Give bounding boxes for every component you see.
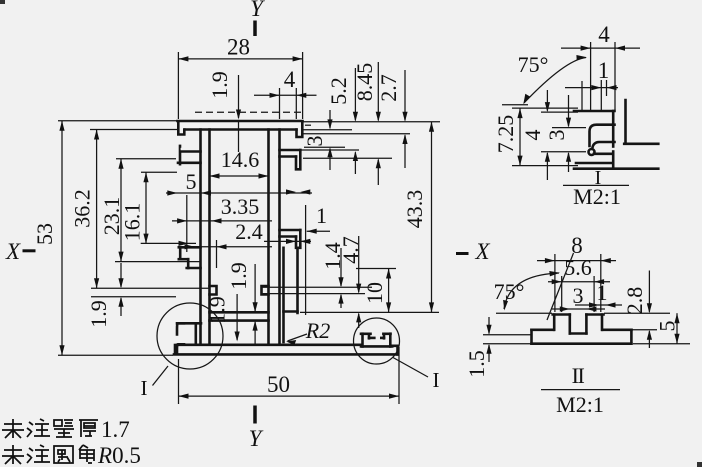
svg-text:53: 53 [32, 223, 57, 245]
svg-text:II: II [572, 363, 585, 388]
svg-text:2.4: 2.4 [235, 219, 263, 244]
svg-text:Y: Y [250, 0, 265, 21]
svg-text:4: 4 [284, 67, 296, 92]
svg-text:1.9: 1.9 [226, 262, 251, 290]
svg-text:R0.5: R0.5 [97, 443, 141, 467]
svg-text:5: 5 [186, 169, 197, 194]
svg-text:1: 1 [598, 58, 610, 83]
svg-text:M2:1: M2:1 [573, 184, 621, 209]
svg-text:5.2: 5.2 [326, 77, 351, 105]
svg-text:1.5: 1.5 [464, 350, 489, 378]
svg-text:7.25: 7.25 [493, 115, 518, 154]
svg-text:1: 1 [316, 203, 327, 228]
svg-text:I: I [433, 368, 440, 392]
svg-text:28: 28 [227, 35, 250, 60]
svg-text:4: 4 [520, 130, 545, 141]
svg-text:36.2: 36.2 [70, 189, 95, 228]
svg-text:10: 10 [362, 282, 387, 304]
svg-text:3: 3 [573, 283, 584, 308]
svg-text:8.45: 8.45 [352, 63, 377, 102]
svg-text:1.9: 1.9 [86, 300, 111, 328]
svg-text:I: I [141, 376, 148, 400]
svg-text:16.1: 16.1 [120, 203, 145, 242]
svg-text:3.35: 3.35 [221, 194, 260, 219]
svg-text:1: 1 [597, 280, 608, 305]
svg-text:1.9: 1.9 [205, 296, 230, 324]
svg-text:43.3: 43.3 [402, 190, 427, 229]
svg-text:Y: Y [249, 426, 264, 451]
svg-text:75°: 75° [518, 52, 549, 77]
svg-text:2.7: 2.7 [376, 74, 401, 102]
svg-text:4: 4 [598, 22, 610, 47]
svg-text:2.8: 2.8 [622, 287, 647, 315]
svg-text:3: 3 [302, 136, 327, 147]
svg-text:X: X [5, 239, 21, 264]
svg-text:R2: R2 [305, 318, 330, 343]
svg-text:M2:1: M2:1 [556, 392, 604, 417]
svg-text:3: 3 [544, 130, 569, 141]
svg-text:1.7: 1.7 [101, 417, 130, 442]
svg-text:X: X [474, 239, 490, 264]
svg-text:1.9: 1.9 [207, 71, 232, 99]
svg-text:50: 50 [267, 372, 290, 397]
svg-text:14.6: 14.6 [221, 147, 260, 172]
